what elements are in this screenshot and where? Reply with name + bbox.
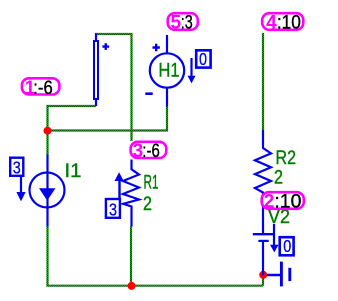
svg-text:R1: R1 — [144, 173, 159, 194]
node junction dot B — [128, 282, 136, 290]
node label 3:-6 — [131, 141, 167, 162]
svg-text::10: :10 — [274, 191, 301, 212]
resistor R2 — [255, 130, 296, 233]
svg-text:0: 0 — [199, 49, 207, 69]
V2 current value box 0 — [280, 236, 294, 256]
wire left rail down and bottom rail — [48, 227, 264, 286]
wire battery top to R1 top node — [95, 34, 132, 141]
node label 2:10 — [262, 191, 304, 212]
wire battery bottom to left rail — [48, 106, 97, 155]
svg-text:2: 2 — [264, 191, 275, 212]
node label 5:3 — [168, 12, 198, 33]
H1 current value box 0 — [196, 49, 210, 69]
current source I1 — [30, 155, 82, 227]
svg-text:R2: R2 — [276, 148, 297, 169]
wire R1 bottom to bottom rail — [130, 227, 132, 286]
H1 current arrow — [188, 58, 196, 83]
dependent source H1 (CCVS) — [145, 35, 184, 107]
node junction dot C — [259, 271, 267, 279]
svg-text:H1: H1 — [159, 61, 180, 82]
battery V2 — [253, 207, 290, 276]
V2 current arrow — [270, 224, 279, 252]
I1 value box 3 — [10, 158, 23, 178]
wire node 4 to R2 top — [262, 33, 264, 131]
node label 1:-6 — [22, 78, 60, 99]
svg-text::3: :3 — [181, 12, 193, 33]
ground symbol — [267, 262, 290, 287]
I1 value arrow — [16, 177, 25, 201]
svg-text:0: 0 — [283, 236, 291, 256]
svg-text::-6: :-6 — [33, 78, 53, 99]
svg-text::10: :10 — [277, 12, 301, 33]
svg-text:3: 3 — [109, 200, 117, 220]
svg-text:2: 2 — [143, 194, 152, 215]
wire H1 bottom to node 1 horizontal — [48, 106, 168, 131]
resistor R1 — [123, 160, 159, 227]
node junction dot A — [44, 127, 52, 135]
svg-text::-6: :-6 — [142, 141, 160, 162]
R1 current arrow — [115, 172, 124, 198]
R1 current value box 3 — [106, 199, 120, 220]
svg-text:2: 2 — [274, 168, 283, 189]
battery V1 — [94, 34, 109, 107]
svg-text:I1: I1 — [65, 161, 82, 182]
svg-text:3: 3 — [13, 158, 21, 178]
node label 4:10 — [262, 12, 303, 33]
svg-text:4: 4 — [266, 12, 277, 33]
